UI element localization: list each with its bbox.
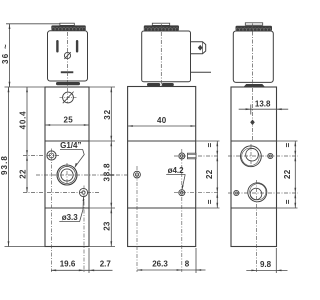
svg-text:9.8: 9.8: [260, 260, 272, 269]
pilot hole (middle left): [134, 171, 141, 178]
solenoid base knurl (middle): [147, 83, 160, 86]
solenoid top tab (left view): [60, 23, 74, 25]
bottom extension (middle right edge): [195, 248, 197, 273]
cable line: [191, 71, 212, 73]
extension lines (right view): [277, 141, 298, 208]
hole o3.3 axis vertical: [83, 186, 85, 273]
mounting hole axis vertical: [51, 149, 53, 273]
coil centerline (middle): [160, 24, 162, 92]
dimension 9.8: [246, 270, 287, 272]
small hole upper right: [268, 153, 273, 158]
dimension 40: [128, 125, 196, 127]
svg-text:23: 23: [102, 221, 111, 231]
svg-text:22: 22: [283, 169, 292, 179]
dimension 13.8: [239, 105, 289, 115]
valve body (right view): [231, 87, 277, 247]
redraw centerline over body: [252, 88, 254, 140]
svg-text:13.8: 13.8: [255, 100, 271, 109]
port circle lower (right view): [248, 183, 267, 202]
lower port crosshair: [228, 180, 298, 272]
svg-text:36 ~: 36 ~: [1, 43, 10, 64]
valve body (middle view): [128, 87, 196, 247]
svg-text:=: =: [205, 199, 214, 204]
svg-text:32: 32: [103, 109, 112, 120]
hole row centerline upper: [23, 155, 61, 157]
svg-text:25: 25: [63, 115, 73, 124]
bottom extension (right view edge): [275, 248, 277, 273]
svg-text:=: =: [283, 143, 292, 148]
port G1/4 circle (left view): [57, 165, 77, 185]
chain dimension line (middle right): [216, 141, 218, 208]
svg-text:22: 22: [205, 169, 214, 179]
body section line upper: [45, 140, 89, 142]
right section line upper: [231, 140, 277, 142]
dimension 93.8: [8, 87, 10, 247]
adjusting screw diamond (right): [250, 120, 255, 126]
hole upper right (middle): [179, 153, 185, 159]
top screw (left view): [60, 88, 77, 104]
connector screw diamond: [198, 45, 203, 51]
dimension 26.3: [137, 269, 196, 271]
upper port crosshair: [228, 144, 298, 168]
dimension 40.4: [26, 87, 28, 193]
coil slot right: [76, 40, 78, 53]
extension lines left of body: [5, 87, 46, 247]
coil lower bar: [61, 71, 74, 73]
port circle crosshair: [36, 163, 149, 187]
leader G1/4: [60, 149, 84, 167]
port circle upper (right view): [241, 146, 262, 167]
svg-text:19.6: 19.6: [60, 260, 76, 269]
solenoid coil body (right): [233, 31, 273, 82]
svg-text:ø3.3: ø3.3: [62, 213, 79, 222]
coil centerline (right): [252, 24, 254, 141]
svg-text:2.7: 2.7: [100, 260, 112, 269]
svg-text:8: 8: [185, 259, 190, 268]
chain dimension line (right view): [294, 141, 296, 208]
solenoid coil body (middle): [142, 31, 191, 82]
svg-text:=: =: [283, 199, 292, 204]
hole o3.3 (left view): [79, 188, 87, 196]
extension lines right of left body: [89, 87, 115, 247]
hole axes (middle): [174, 149, 220, 272]
valve body (left view): [45, 87, 89, 247]
solenoid base nut (right): [244, 84, 266, 87]
leader o3.3: [59, 196, 84, 221]
coil slot left: [56, 40, 58, 53]
dimension 25: [45, 124, 89, 126]
svg-text:22: 22: [19, 169, 28, 179]
solenoid top tab (middle): [152, 23, 169, 25]
middle section line lower: [128, 207, 196, 209]
svg-text:40: 40: [157, 116, 167, 125]
port row tick on dim line: [109, 174, 114, 176]
leader o4.2: [166, 174, 185, 189]
coil centerline: [67, 32, 69, 86]
solenoid knurled nut (right): [236, 26, 273, 32]
solenoid coil body (left view): [48, 31, 88, 81]
hole lower right (middle): [179, 190, 185, 196]
svg-text:93.8: 93.8: [0, 155, 9, 175]
svg-text:26.3: 26.3: [152, 259, 168, 268]
extension lines (middle right): [196, 141, 220, 208]
bottom extension line (left body right edge): [88, 248, 90, 273]
dimension 36~ line: [9, 24, 11, 87]
pilot hole crosshair: [136, 166, 138, 272]
svg-text:=: =: [205, 143, 214, 148]
dimension 32 / 38.8 / 23 line: [110, 87, 112, 247]
dimension 8: [196, 269, 206, 271]
svg-text:ø4.2: ø4.2: [168, 166, 185, 175]
connector plug: [191, 42, 206, 54]
hole row centerline lower: [23, 192, 100, 194]
dimension 2.7: [89, 269, 113, 271]
svg-text:G1/4”: G1/4”: [60, 141, 81, 150]
solenoid knurled nut (left view): [51, 25, 86, 31]
dimension 19.6: [51, 269, 89, 271]
coil center screw: [64, 52, 70, 59]
svg-text:40.4: 40.4: [19, 111, 28, 130]
mounting hole (left view upper): [47, 151, 56, 160]
solenoid base knurl (left view): [56, 82, 80, 85]
small hole lower left: [234, 190, 239, 195]
solenoid knurled nut (middle): [144, 25, 179, 31]
threaded stub at right edge: [188, 153, 197, 159]
extension line top (36~): [6, 23, 60, 25]
svg-text:38.8: 38.8: [103, 163, 112, 182]
right section line lower: [231, 207, 277, 209]
middle section line upper: [128, 140, 196, 142]
solenoid top tab (right): [245, 23, 262, 25]
body section line lower: [45, 207, 89, 209]
